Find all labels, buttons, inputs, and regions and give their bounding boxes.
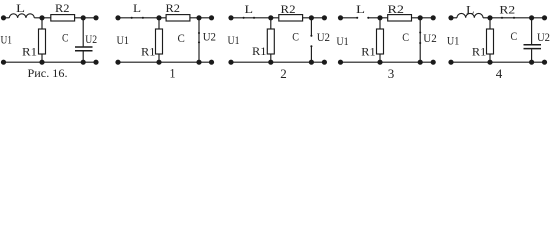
svg-text:L: L	[16, 3, 25, 15]
svg-text:U2: U2	[317, 32, 331, 44]
terminal dot of shorted L (left)	[131, 17, 133, 19]
svg-text:U2: U2	[203, 31, 217, 43]
terminal dot of shorted C (bottom)	[198, 41, 200, 43]
circuit Рис.16: left top terminal	[1, 15, 6, 20]
terminal dot of removed C (top)	[310, 35, 312, 37]
circuit 4: left top terminal	[448, 15, 453, 20]
svg-text:C: C	[511, 31, 518, 43]
capacitor C top plate	[75, 46, 93, 48]
wire (R2 replaced by short)	[490, 17, 545, 19]
wire (R1 branch bottom lead)	[158, 54, 160, 62]
capacitor C bottom plate	[75, 50, 93, 52]
left bottom terminal	[228, 60, 233, 65]
wire (R1 branch bottom lead)	[379, 54, 381, 62]
wire	[451, 17, 457, 19]
wire	[190, 17, 212, 19]
svg-text:R2: R2	[388, 4, 405, 16]
terminal dot of removed L (left)	[356, 17, 358, 19]
svg-text:L: L	[133, 3, 141, 15]
right top terminal	[209, 15, 214, 20]
left bottom terminal	[1, 60, 6, 65]
wire	[412, 17, 434, 19]
terminal dot of shorted C (top)	[419, 31, 421, 33]
inductor L	[9, 14, 34, 18]
node (bottom of R1 branch)	[39, 60, 44, 65]
wire	[4, 17, 10, 19]
bottom wire	[231, 61, 324, 63]
circuit 3: left top terminal	[338, 15, 343, 20]
terminal dot of shorted L (right)	[253, 17, 255, 19]
svg-text:2: 2	[280, 67, 287, 81]
node (top of C branch)	[529, 15, 534, 20]
wire (C branch top lead)	[82, 18, 84, 47]
svg-text:C: C	[62, 33, 69, 45]
svg-text:U2: U2	[85, 34, 97, 46]
svg-text:R1: R1	[141, 46, 156, 58]
node (top of C branch)	[81, 15, 86, 20]
svg-text:R1: R1	[361, 47, 376, 59]
svg-text:U2: U2	[423, 33, 437, 45]
wire (right stub of removed L)	[369, 17, 388, 19]
bottom wire	[118, 61, 212, 63]
bottom wire	[4, 61, 97, 63]
wire (left stub of removed L)	[341, 17, 357, 19]
bottom wire	[341, 61, 434, 63]
svg-text:U1: U1	[117, 35, 130, 47]
svg-text:U2: U2	[537, 32, 550, 44]
svg-text:U1: U1	[447, 36, 460, 48]
node (bottom of R1 branch)	[377, 60, 382, 65]
wire (R1 branch top lead)	[489, 18, 491, 29]
terminal dot of removed C (bottom)	[310, 45, 312, 47]
wire (R1 branch top lead)	[379, 18, 381, 29]
resistor R2	[166, 15, 190, 21]
resistor R2	[388, 15, 412, 21]
node (top of C branch)	[418, 15, 423, 20]
svg-text:4: 4	[496, 67, 503, 81]
resistor R1	[39, 29, 46, 54]
svg-text:R1: R1	[472, 47, 487, 59]
svg-text:C: C	[402, 32, 409, 44]
node (bottom of C branch)	[529, 60, 534, 65]
terminal dot of shorted C (bottom)	[419, 42, 421, 44]
svg-text:1: 1	[170, 67, 176, 81]
right top terminal	[322, 15, 327, 20]
svg-text:R1: R1	[22, 47, 37, 59]
svg-text:R2: R2	[55, 3, 70, 15]
terminal dot of shorted R2 (right)	[513, 17, 515, 19]
terminal dot of shorted L (right)	[142, 17, 144, 19]
right bottom terminal	[209, 60, 214, 65]
svg-text:3: 3	[388, 67, 395, 81]
node (top of C branch)	[196, 15, 201, 20]
wire (R1 branch top lead)	[158, 18, 160, 29]
wire	[483, 17, 490, 19]
bottom wire	[451, 61, 545, 63]
svg-text:C: C	[292, 31, 299, 43]
wire (C branch, C removed - upper stub)	[310, 18, 312, 35]
node (bottom of C branch)	[309, 60, 314, 65]
resistor R1	[377, 29, 384, 54]
wire (R1 branch bottom lead)	[270, 54, 272, 62]
node (top of R1 branch)	[487, 15, 492, 20]
right top terminal	[93, 15, 98, 20]
svg-text:U1: U1	[228, 35, 240, 47]
svg-text:R2: R2	[166, 3, 181, 15]
svg-text:L: L	[245, 4, 254, 16]
wire (C replaced by short)	[419, 18, 421, 62]
left bottom terminal	[115, 60, 120, 65]
resistor R1	[487, 29, 494, 54]
resistor R2	[51, 15, 75, 21]
svg-text:L: L	[466, 4, 475, 16]
node (bottom of C branch)	[418, 60, 423, 65]
wire (C branch bottom lead)	[82, 52, 84, 63]
svg-text:U1: U1	[336, 36, 349, 48]
node (top of C branch)	[309, 15, 314, 20]
node (top of R1 branch)	[268, 15, 273, 20]
wire (C branch, C removed - lower stub)	[310, 47, 312, 62]
svg-text:R1: R1	[252, 46, 267, 58]
node (bottom of R1 branch)	[268, 60, 273, 65]
terminal dot of shorted R2 (left)	[501, 17, 503, 19]
right bottom terminal	[322, 60, 327, 65]
right top terminal	[431, 15, 436, 20]
wire (L replaced by short)	[231, 17, 279, 19]
wire (R1 branch bottom lead)	[489, 54, 491, 62]
left bottom terminal	[338, 60, 343, 65]
wire	[303, 17, 325, 19]
inductor L	[457, 13, 483, 17]
node (bottom of R1 branch)	[156, 60, 161, 65]
svg-text:U1: U1	[1, 35, 13, 47]
wire (R1 branch top lead)	[270, 18, 272, 29]
wire (L replaced by short)	[118, 17, 166, 19]
resistor R1	[156, 29, 163, 54]
resistor R2	[279, 15, 303, 21]
capacitor C top plate	[524, 44, 542, 46]
svg-text:R2: R2	[281, 4, 296, 16]
wire (C branch bottom lead)	[531, 49, 533, 62]
capacitor C bottom plate	[524, 48, 542, 50]
terminal dot of shorted L (left)	[243, 17, 245, 19]
circuit 2: left top terminal	[228, 15, 233, 20]
right bottom terminal	[542, 60, 547, 65]
node (bottom of C branch)	[196, 60, 201, 65]
right bottom terminal	[93, 60, 98, 65]
node (bottom of R1 branch)	[487, 60, 492, 65]
terminal dot of removed L (right)	[367, 17, 369, 19]
circuit 1: left top terminal	[115, 15, 120, 20]
left bottom terminal	[448, 60, 453, 65]
resistor R1	[267, 29, 274, 54]
node (top of R1 branch)	[156, 15, 161, 20]
svg-text:L: L	[356, 4, 365, 16]
wire (R1 branch bottom lead)	[41, 54, 43, 62]
wire (C branch top lead)	[531, 18, 533, 44]
node (top of R1 branch)	[39, 15, 44, 20]
wire	[75, 17, 96, 19]
wire (C replaced by short)	[198, 18, 200, 62]
node (top of R1 branch)	[377, 15, 382, 20]
right top terminal	[542, 15, 547, 20]
wire	[34, 17, 51, 19]
terminal dot of shorted C (top)	[198, 32, 200, 34]
svg-text:Рис. 16.: Рис. 16.	[28, 68, 68, 80]
svg-text:R2: R2	[499, 5, 515, 17]
wire (R1 branch top lead)	[41, 18, 43, 29]
svg-text:C: C	[178, 33, 186, 45]
node (bottom of C branch)	[81, 60, 86, 65]
right bottom terminal	[431, 60, 436, 65]
